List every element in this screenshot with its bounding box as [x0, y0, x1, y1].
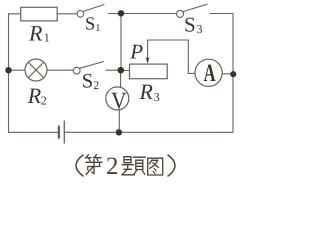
resistor R1	[21, 7, 58, 21]
svg-text:S: S	[85, 15, 95, 35]
svg-text:R: R	[27, 83, 42, 108]
rheostat R3	[130, 64, 168, 79]
svg-text:1: 1	[44, 31, 50, 45]
label R2	[27, 83, 47, 108]
wire S3 to top-right corner	[210, 13, 233, 15]
node B junction dot	[5, 67, 11, 73]
label S3	[184, 13, 203, 37]
wire top-left to R1	[9, 13, 21, 15]
svg-text:A: A	[204, 60, 216, 87]
wire left vertical	[8, 14, 10, 133]
label S2	[82, 71, 100, 93]
node E junction dot (right of ammeter)	[230, 71, 236, 77]
svg-text:S: S	[82, 71, 93, 93]
svg-text:2: 2	[93, 80, 99, 92]
wire S2 to node C	[106, 69, 121, 71]
svg-text:S: S	[184, 13, 196, 37]
caption (第2题图)	[76, 153, 175, 180]
wire right vertical	[232, 14, 234, 133]
svg-text:R: R	[139, 79, 154, 104]
wire node C to rheostat R3	[121, 70, 130, 72]
node D junction dot (below voltmeter)	[116, 129, 122, 135]
svg-text:P: P	[129, 39, 143, 63]
wire R1 to S1	[57, 13, 77, 15]
wire node A to S3	[121, 13, 177, 15]
wire lamp to S2	[47, 69, 73, 71]
wire wiper to ammeter	[148, 40, 195, 73]
voltmeter V	[106, 87, 129, 110]
switch S2	[73, 62, 103, 75]
caption character 第	[86, 155, 103, 175]
caption right parenthesis	[168, 155, 175, 176]
wire vertical node A to node C	[120, 14, 122, 71]
svg-text:2: 2	[106, 153, 119, 180]
label R1	[28, 21, 50, 46]
battery	[59, 121, 64, 143]
caption character 题	[122, 157, 146, 175]
svg-text:1: 1	[95, 23, 100, 34]
node A junction dot	[118, 10, 124, 16]
wire node C down to voltmeter	[120, 70, 122, 87]
label R3	[139, 79, 160, 104]
wiper P arrow	[146, 40, 150, 64]
svg-text:3: 3	[154, 90, 160, 104]
caption character 图	[148, 158, 163, 175]
switch S3	[177, 4, 207, 17]
switch S1	[77, 5, 104, 18]
svg-text:2: 2	[41, 94, 47, 108]
svg-text:V: V	[111, 88, 127, 114]
wire battery to bottom-left corner	[9, 131, 59, 133]
ammeter A	[195, 59, 222, 86]
caption left parenthesis	[76, 155, 83, 176]
node C junction dot	[118, 67, 125, 74]
wire S1 to node A	[109, 13, 122, 15]
label S1	[85, 15, 101, 35]
wire voltmeter to bottom node	[118, 110, 120, 133]
wire bottom right from corner to battery	[65, 131, 233, 133]
wire ammeter to right node	[222, 73, 233, 75]
svg-text:3: 3	[197, 22, 203, 36]
lamp R2	[25, 59, 47, 81]
svg-text:R: R	[28, 21, 43, 46]
wire node B to lamp	[9, 69, 26, 71]
